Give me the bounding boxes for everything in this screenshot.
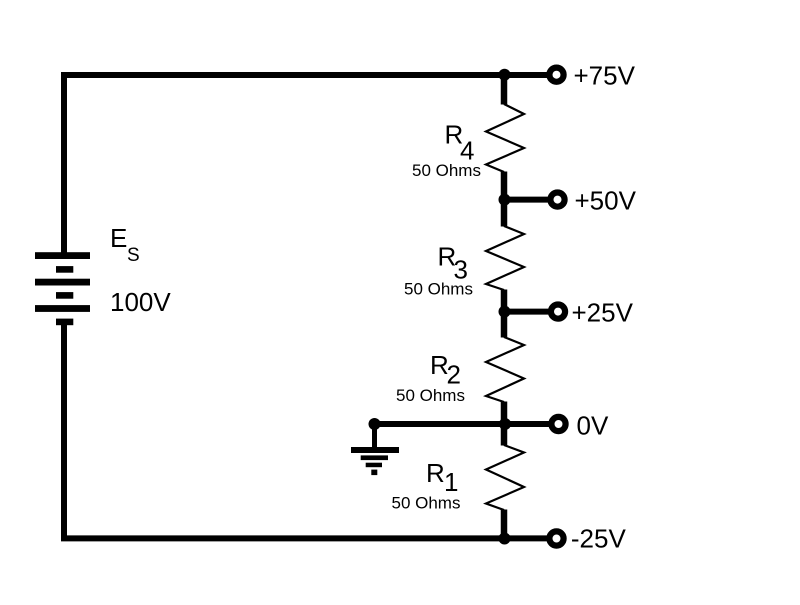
svg-text:1: 1: [444, 467, 458, 497]
resistor R1: [486, 424, 524, 539]
terminal +50V: [550, 193, 564, 207]
wire: top rail from battery positive to node +75V: [64, 75, 504, 253]
terminal 0V: [551, 417, 565, 431]
wire: stub node +25V to terminal: [504, 309, 551, 315]
node +50V junction dot: [499, 194, 511, 206]
battery Es (multi-cell): [35, 252, 90, 325]
label R4: [445, 120, 475, 166]
svg-text:+25V: +25V: [572, 298, 634, 328]
wire: left branch from battery negative down and along bottom to node -25V: [64, 322, 504, 538]
svg-text:S: S: [127, 245, 140, 266]
svg-text:2: 2: [447, 360, 461, 390]
svg-text:100V: 100V: [110, 287, 171, 317]
svg-text:0V: 0V: [577, 411, 609, 441]
wire: stub node 0V to terminal: [504, 421, 551, 427]
svg-text:R: R: [426, 458, 445, 488]
wire: stub node +50V to terminal: [504, 197, 551, 203]
label R1: [426, 458, 458, 497]
label R2: [430, 350, 461, 390]
terminal +25V: [551, 305, 565, 319]
node 0V junction dot: [499, 418, 511, 430]
resistor R4: [486, 75, 524, 200]
node -25V junction dot: [499, 533, 511, 545]
resistor R3: [486, 200, 524, 313]
node +75V junction dot: [499, 69, 511, 81]
ground: [351, 424, 399, 475]
svg-text:-25V: -25V: [571, 524, 627, 554]
junction dot at ground tap: [369, 418, 381, 430]
wire: stub node -25V to terminal: [504, 535, 551, 541]
svg-text:50 Ohms: 50 Ohms: [392, 494, 461, 513]
svg-text:+75V: +75V: [574, 60, 636, 90]
node +25V junction dot: [499, 306, 511, 318]
svg-text:+50V: +50V: [575, 185, 637, 215]
wire: stub node +75V to terminal: [504, 72, 551, 78]
svg-text:50 Ohms: 50 Ohms: [412, 161, 481, 180]
svg-text:E: E: [110, 223, 127, 253]
label Es: [110, 223, 140, 266]
svg-text:50 Ohms: 50 Ohms: [396, 386, 465, 405]
terminal +75V: [549, 68, 563, 82]
resistor R2: [486, 312, 524, 425]
svg-text:50 Ohms: 50 Ohms: [404, 280, 473, 299]
wire: 0V rail from ground to node 0V: [374, 421, 504, 427]
label R3: [438, 242, 468, 285]
terminal -25V: [549, 531, 563, 545]
